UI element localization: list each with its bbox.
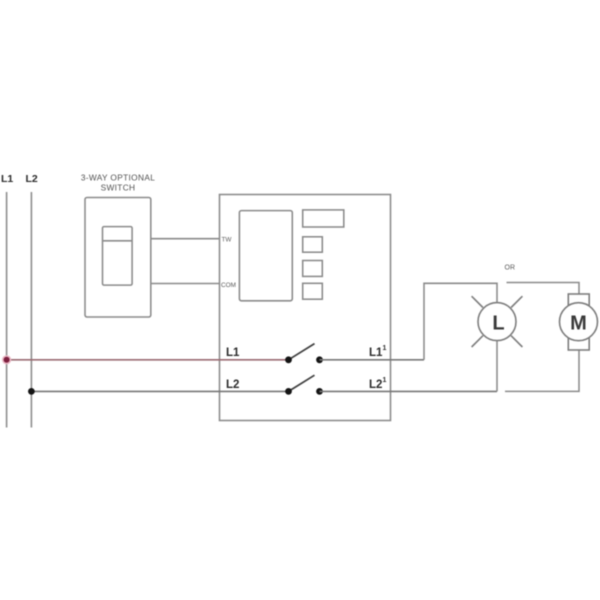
contact K1 left pole [285,356,292,363]
contact K1 blade [289,344,315,360]
svg-text:L1: L1 [1,173,13,185]
svg-text:L2: L2 [226,379,239,391]
wire L1 hot (red) [7,359,289,361]
svg-text:3-WAY OPTIONAL: 3-WAY OPTIONAL [81,173,155,183]
wire S1 to TW terminal [151,238,220,240]
svg-text:TW: TW [222,237,233,244]
svg-text:L2: L2 [26,173,38,185]
button B2 [303,237,323,252]
junction node on L1 rail [2,355,11,364]
svg-text:1: 1 [383,345,387,352]
display of U1 [239,211,292,301]
button B3 [303,261,323,277]
wire L2 switched output [320,390,498,392]
svg-text:L: L [492,312,504,334]
motor M1 load [560,294,598,350]
svg-text:L2: L2 [369,379,382,391]
button B4 [303,283,323,299]
label switch S1 [81,173,155,193]
wire L1 switched output [320,359,425,361]
contact K2 left pole [285,388,292,395]
wire lamp branch top [424,283,497,360]
svg-text:OR: OR [505,265,516,272]
wire motor branch bottom [505,350,579,391]
wire S1 to COM terminal [151,283,220,285]
svg-text:L1: L1 [369,347,383,359]
contact K2 right pole [316,388,323,395]
terminal label L2 prime [369,377,387,391]
svg-text:SWITCH: SWITCH [101,183,136,193]
button B1 wide [303,210,344,227]
junction node on L2 rail [28,388,35,395]
wire L2 supply rail [30,192,32,428]
switch S1 body [85,198,151,318]
terminal label L1 prime [369,345,387,359]
svg-text:1: 1 [383,377,387,384]
wire lamp branch bottom [496,340,498,391]
timer control U1 body [220,195,391,421]
contact K2 blade [289,375,315,391]
svg-text:COM: COM [221,282,236,289]
wire motor branch top [507,283,580,295]
wire L1 supply rail [6,192,8,428]
contact K1 right pole [316,356,323,363]
svg-text:M: M [570,313,587,335]
lamp L1 load [472,296,523,347]
svg-text:L1: L1 [226,347,240,359]
switch S1 paddle [103,227,133,286]
wire L2 neutral [31,390,288,392]
